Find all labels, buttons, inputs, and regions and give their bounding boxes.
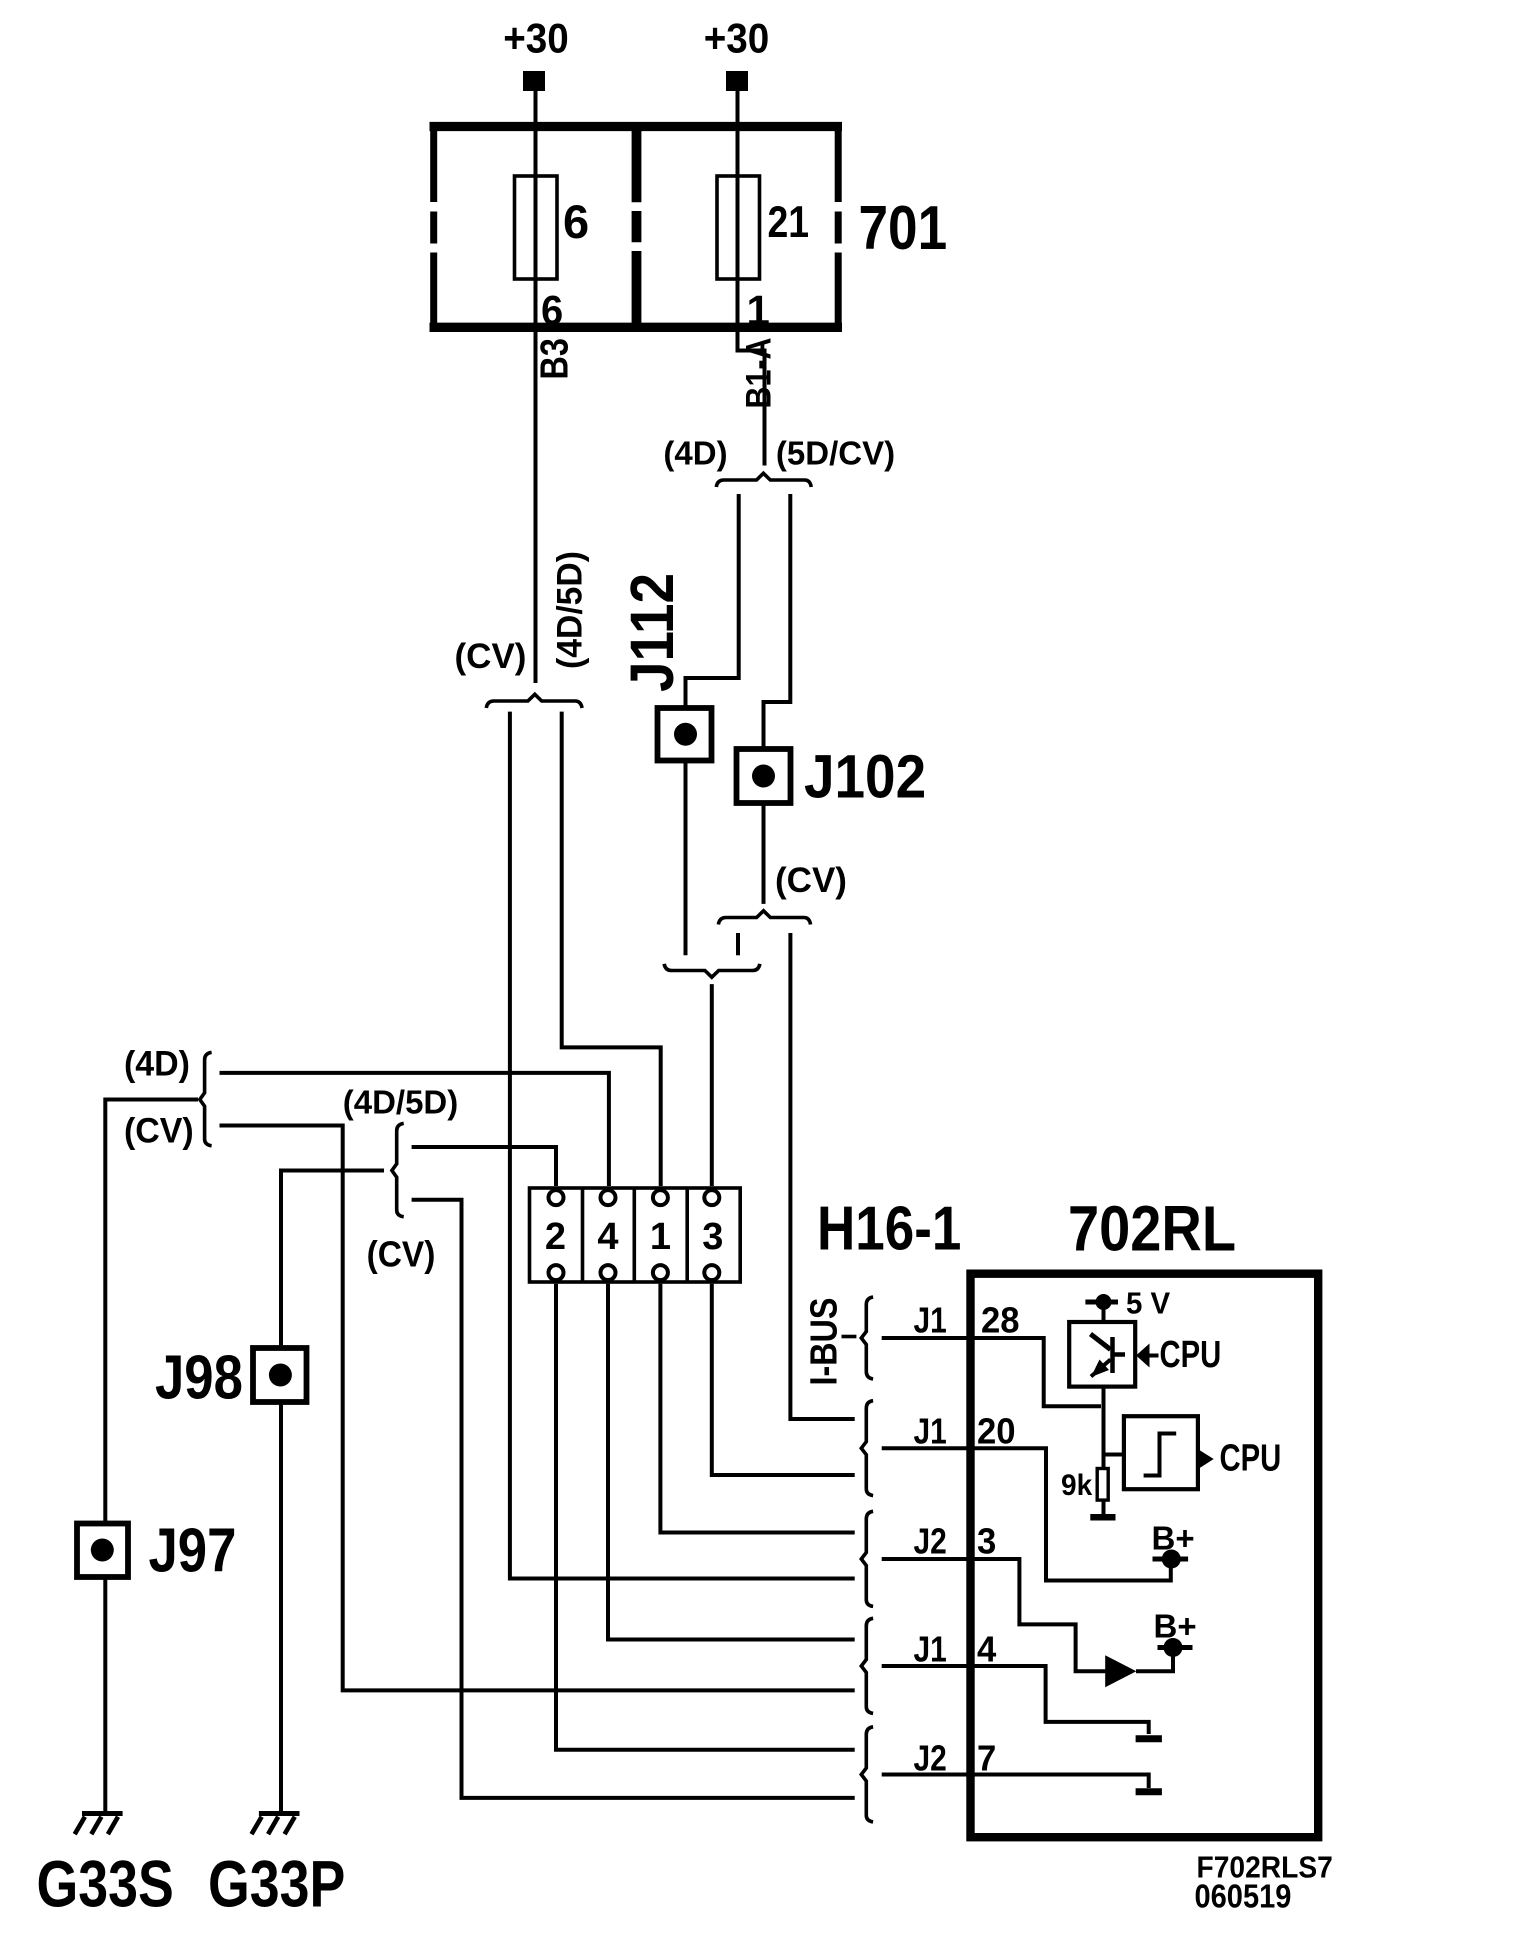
B+ supply symbol (J2-3) [1158, 1638, 1193, 1657]
pin number 3 [977, 1521, 996, 1562]
supply label B+ (J1-20) [1152, 1519, 1195, 1556]
wire J1-4 into module to internal ground [882, 1666, 1149, 1734]
wire pin 1 down to H16-1 J2-3 upper branch [660, 1284, 854, 1533]
supply value label 5 V [1126, 1287, 1170, 1321]
wire from merge brace to connector pin 3 [710, 984, 714, 1186]
wire (4D) branch to junction J112 [686, 494, 739, 707]
wire (5D/CV) branch to junction J102 [764, 494, 791, 748]
pin 6 label of 701 [541, 287, 563, 334]
label CPU (Schmitt trigger output) [1220, 1437, 1282, 1480]
control module 702RL box [971, 1274, 1319, 1838]
fuse value label 6 [563, 195, 589, 248]
svg-text:4: 4 [597, 1216, 618, 1258]
resistor 9k [1097, 1469, 1108, 1501]
B+ supply symbol (J1-20) [1153, 1550, 1189, 1569]
hysteresis (Schmitt trigger) box U2 [1124, 1416, 1198, 1489]
variant split brace left (4D)/(CV) [200, 1052, 212, 1145]
variant label (4D/5D) right of fuse 6 wire (rotated) [551, 551, 590, 669]
resistor value label 9k [1061, 1469, 1093, 1502]
svg-text:G33P: G33P [208, 1847, 345, 1920]
svg-text:9k: 9k [1061, 1469, 1093, 1502]
svg-text:J112: J112 [618, 573, 686, 692]
svg-text:7: 7 [977, 1737, 996, 1778]
pin number 4 [977, 1629, 996, 1670]
svg-text:(CV): (CV) [775, 861, 847, 900]
svg-text:CPU: CPU [1160, 1333, 1222, 1376]
pin group label J1 (pin 28) [914, 1301, 947, 1341]
svg-text:(CV): (CV) [367, 1235, 436, 1274]
component label 701 [859, 193, 948, 263]
variant brace for pin J1-4 [861, 1618, 873, 1713]
svg-text:20: 20 [977, 1411, 1016, 1452]
chassis ground symbol G33P [252, 1814, 300, 1835]
module name label 702RL [1068, 1193, 1236, 1264]
dashed I-BUS continuation stub [842, 1335, 857, 1339]
ground name label G33S [37, 1847, 174, 1920]
variant label (CV) left of fuse 6 wire [455, 637, 527, 676]
svg-text:B1-A: B1-A [738, 337, 777, 408]
pin number 28 [981, 1300, 1020, 1341]
variant label (CV) above split brace [775, 861, 847, 900]
chassis ground symbol G33S [75, 1814, 123, 1835]
variant brace for pin J2-3 [861, 1511, 873, 1606]
svg-text:1: 1 [747, 287, 770, 334]
svg-text:(CV): (CV) [124, 1112, 194, 1151]
svg-text:28: 28 [981, 1300, 1020, 1341]
node +30 supply label (fuse 6 feed) [503, 14, 569, 62]
junction connector J98 symbol [253, 1348, 307, 1402]
svg-text:B+: B+ [1154, 1608, 1197, 1645]
wire from amplifier up to B+ [1136, 1650, 1173, 1671]
svg-text:G33S: G33S [37, 1847, 174, 1920]
component label J102 [804, 743, 926, 811]
svg-text:1: 1 [650, 1216, 671, 1258]
connector pin number 2 [545, 1216, 566, 1258]
junction connector J102 symbol [737, 749, 791, 803]
wire label B3 (rotated) [533, 338, 577, 379]
pin group label J1 (pin 4) [914, 1630, 947, 1670]
wire pin 3 down to H16-1 J1-20 lower branch [712, 1284, 855, 1475]
label CPU (comparator output) [1160, 1333, 1222, 1376]
wire from left brace cusp to G33S ground leg [105, 1100, 198, 1524]
wire comparator output down through resistor node [1104, 1387, 1124, 1469]
node +30 supply label (fuse 21 feed) [704, 14, 770, 62]
component label J112 (rotated) [618, 573, 686, 692]
wire from middle brace cusp to G33P ground leg [281, 1171, 384, 1349]
variant label (CV) left side [124, 1112, 194, 1151]
amplifier symbol (J2-3 path) [1105, 1655, 1136, 1687]
fuse F6 symbol [515, 176, 558, 279]
wire (4D/5D) branch to connector pin 2 [412, 1147, 556, 1186]
wire from J112 down to merge brace [684, 761, 688, 956]
pin number 20 [977, 1411, 1016, 1452]
svg-text:(5D/CV): (5D/CV) [776, 435, 895, 472]
inline connector block (pins 2 4 1 3) [530, 1188, 741, 1282]
drawing number label F702RLS7 [1197, 1850, 1333, 1885]
wire J2-3 into module to amplifier [882, 1559, 1106, 1671]
5 V internal supply symbol [1085, 1294, 1118, 1322]
pin group label J2 (pin 3) [914, 1522, 947, 1562]
wire pin 4 down to H16-1 J1-4 upper branch [608, 1284, 855, 1640]
pin group label J1 (pin 20) [914, 1412, 947, 1452]
svg-text:(4D/5D): (4D/5D) [343, 1084, 459, 1121]
wire J2-7 into module to internal ground [882, 1775, 1149, 1789]
component label J98 [155, 1344, 243, 1413]
svg-text:3: 3 [977, 1521, 996, 1562]
wire (CV) branch down and across to H16-1 J1-4 lower branch [220, 1126, 855, 1691]
svg-text:B3: B3 [533, 338, 577, 379]
variant split brace middle (4D/5D)/(CV) [392, 1123, 404, 1216]
variant label (CV) below middle brace [367, 1235, 436, 1274]
connector pin 2 terminals [549, 1190, 564, 1280]
svg-text:B+: B+ [1152, 1519, 1195, 1556]
connector pin 4 terminals [601, 1190, 616, 1280]
svg-text:2: 2 [545, 1216, 566, 1258]
svg-text:(CV): (CV) [455, 637, 527, 676]
svg-text:701: 701 [859, 193, 948, 263]
wire label B1-A (rotated) [738, 337, 777, 408]
svg-text:060519: 060519 [1195, 1878, 1292, 1915]
svg-text:3: 3 [702, 1216, 723, 1258]
variant label (4D/5D) middle [343, 1084, 459, 1121]
svg-text:CPU: CPU [1220, 1437, 1282, 1480]
connector pin 3 terminals [704, 1190, 719, 1280]
svg-text:702RL: 702RL [1068, 1193, 1236, 1264]
wire resistor to internal ground [1102, 1500, 1106, 1514]
svg-text:+30: +30 [704, 14, 770, 62]
svg-text:J1: J1 [914, 1301, 947, 1341]
comparator input stage box U1 [1069, 1322, 1135, 1387]
wire 4D/5D branch of fuse 6 to connector pin 1 [562, 712, 661, 1186]
variant split brace under B1-A wire [716, 473, 811, 487]
svg-text:J102: J102 [804, 743, 926, 811]
pin group label J2 (pin 7) [914, 1739, 947, 1779]
component label J97 [149, 1517, 237, 1586]
wire pin 2 down to H16-1 J2-7 upper branch [556, 1284, 855, 1750]
svg-text:6: 6 [563, 195, 589, 248]
supply label B+ (J2-3) [1154, 1608, 1197, 1645]
variant split brace under fuse 6 wire [486, 694, 582, 708]
junction connector J97 symbol [77, 1524, 128, 1578]
internal ground symbol (J1-4) [1136, 1735, 1162, 1742]
svg-text:(4D): (4D) [663, 435, 727, 472]
svg-text:5 V: 5 V [1126, 1287, 1170, 1321]
variant merge brace above connector pin 3 [664, 964, 760, 977]
variant label (4D) for B1-A branch [663, 435, 727, 472]
fuse F21 symbol [717, 176, 760, 279]
svg-text:4: 4 [977, 1629, 996, 1670]
connector pin number 3 [702, 1216, 723, 1258]
variant brace for pin J2-7 [861, 1727, 873, 1822]
wire from J97 to ground G33S [103, 1577, 107, 1812]
+30 terminal square (fuse 6 feed) [523, 71, 545, 91]
svg-text:21: 21 [768, 197, 810, 247]
variant label (5D/CV) for B1-A branch [776, 435, 895, 472]
wire CV branch from J102 split down to H16-1 J1-20 upper branch [790, 933, 854, 1419]
fuse holder 701 box outline (dashed sides) [430, 122, 843, 332]
internal ground symbol (9k resistor) [1090, 1514, 1115, 1521]
junction connector J112 symbol [658, 708, 712, 761]
wire from J102 down to CV split brace [762, 803, 766, 904]
wire J1-28 into module to comparator node [882, 1338, 1101, 1406]
wire J1-20 into module up to B+ [882, 1448, 1171, 1580]
CPU output arrow (comparator) [1136, 1344, 1159, 1368]
internal ground symbol (J2-7) [1136, 1788, 1162, 1795]
variant brace for pin J1-28 [861, 1297, 873, 1379]
svg-text:(4D): (4D) [124, 1045, 190, 1084]
variant brace for pin J1-20 [861, 1401, 873, 1496]
variant label (4D) left side [124, 1045, 190, 1084]
connector pin number 4 [597, 1216, 618, 1258]
ground name label G33P [208, 1847, 345, 1920]
wire from +30 through fuse 21, jog right, down to variant brace [738, 91, 765, 466]
+30 terminal square (fuse 21 feed) [726, 71, 748, 91]
svg-text:J98: J98 [155, 1344, 243, 1413]
variant split brace below J102 [718, 911, 810, 925]
svg-text:J97: J97 [149, 1517, 237, 1586]
wire stub from split brace to merge brace [736, 933, 740, 955]
wire from J98 to ground G33P [279, 1402, 283, 1812]
CPU output arrow (Schmitt trigger) [1199, 1450, 1214, 1469]
svg-text:(4D/5D): (4D/5D) [551, 551, 590, 669]
fuse value label 21 [768, 197, 810, 247]
wire CV branch of fuse 6 down to H16-1 J2-3 lower branch [510, 712, 855, 1579]
svg-text:J2: J2 [914, 1522, 947, 1562]
pin 1 label of 701 [747, 287, 770, 334]
connector name label H16-1 [817, 1195, 961, 1264]
net label I-BUS (rotated) [803, 1298, 845, 1386]
svg-text:H16-1: H16-1 [817, 1195, 961, 1264]
wire (CV) branch down to H16-1 J2-7 lower branch [412, 1200, 855, 1798]
connector pin number 1 [650, 1216, 671, 1258]
svg-text:+30: +30 [503, 14, 569, 62]
connector pin 1 terminals [653, 1190, 668, 1280]
drawing date label 060519 [1195, 1878, 1292, 1915]
svg-text:I-BUS: I-BUS [803, 1298, 845, 1386]
svg-text:6: 6 [541, 287, 563, 334]
pin number 7 [977, 1737, 996, 1778]
wire from +30 through fuse 6 down to variant brace [534, 91, 538, 683]
wire (4D) branch to connector pin 4 [220, 1073, 609, 1186]
